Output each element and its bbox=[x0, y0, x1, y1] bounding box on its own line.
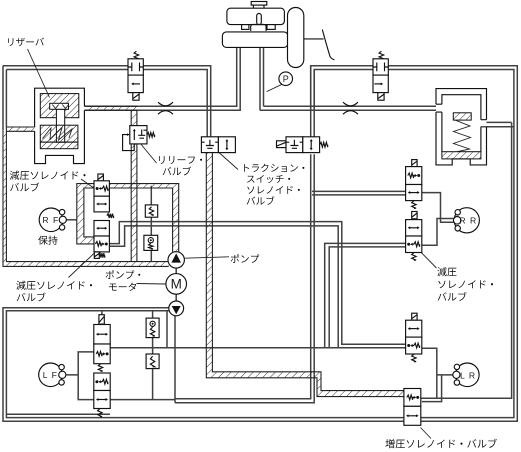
wire LF hold to LR reduce line bbox=[110, 347, 405, 349]
brake booster bbox=[288, 8, 304, 68]
wheel cylinder RR bbox=[454, 208, 479, 233]
wire reservoir gallery to master cylinder left pipe bbox=[85, 48, 241, 111]
master cylinder body bbox=[222, 32, 288, 48]
wire supply junction verticals bbox=[311, 66, 315, 137]
valve T1 traction switch solenoid bbox=[201, 137, 218, 153]
pump P2 bbox=[169, 301, 184, 316]
wire hold-valve bundle beta bbox=[109, 226, 338, 348]
leader relief valve label bbox=[141, 144, 157, 163]
label lbl-genatsu2a bbox=[16, 281, 92, 290]
label lbl-genatsu2b bbox=[17, 292, 46, 301]
leader RR reduce valve label bbox=[422, 253, 437, 268]
valve H LF reduce solenoid bbox=[94, 373, 110, 391]
wheel cylinder LF bbox=[39, 363, 63, 387]
wheel cylinder RF bbox=[39, 208, 63, 232]
label lbl-genatsu1b bbox=[10, 182, 39, 191]
wire RR bracket bbox=[422, 193, 455, 246]
svg-text:L F: L F bbox=[43, 370, 58, 380]
check valve K3 bbox=[146, 318, 159, 338]
regulator body bbox=[436, 89, 487, 165]
wire LR bracket bbox=[422, 348, 455, 401]
reservoir piston bbox=[56, 109, 64, 142]
label lbl-trac-b bbox=[247, 175, 290, 183]
label lbl-hoji bbox=[38, 236, 57, 245]
wire RR reduce valve return gamma1 bbox=[325, 243, 406, 347]
label lbl-genatsu1a bbox=[10, 171, 86, 180]
label lbl-pumpmotor-b bbox=[109, 283, 136, 291]
check valve K2 bbox=[144, 235, 158, 250]
label lbl-reservoir bbox=[8, 38, 44, 46]
master cylinder grommets bbox=[242, 25, 249, 30]
valve T2 master cut solenoid bbox=[277, 141, 287, 148]
regulator piston block bbox=[453, 113, 471, 120]
label lbl-pumpmotor-a bbox=[106, 270, 141, 279]
label lbl-genatsu3a bbox=[437, 267, 456, 276]
wire master-cut valve lower pair to return bbox=[175, 154, 314, 403]
leader reduce valve label 2 bbox=[69, 253, 96, 278]
leader pump label bbox=[185, 257, 229, 258]
wire feed to RR inlet valve bbox=[312, 191, 406, 195]
check valve K1 bbox=[145, 205, 157, 217]
leader boost valve label bbox=[421, 428, 432, 439]
node P leader bbox=[267, 84, 282, 91]
wire LF hold valve stub bbox=[101, 311, 103, 325]
valve U1 left circuit solenoid bbox=[134, 51, 139, 59]
wheel cylinder LR bbox=[456, 363, 480, 387]
wire top-left border to traction valve bbox=[3, 66, 211, 137]
pipe hatched left border and bottom return to pump bbox=[3, 129, 169, 266]
reservoir body bbox=[35, 88, 85, 163]
wire LF frame inner bottom bbox=[6, 413, 110, 415]
svg-text:P: P bbox=[283, 74, 289, 84]
check valve K4 bbox=[146, 354, 159, 369]
leader pump motor label bbox=[137, 283, 166, 286]
wire inner border ring bbox=[6, 70, 514, 418]
pipe hatched relief valve drop bbox=[131, 110, 137, 261]
orifice restrictor right bbox=[343, 102, 358, 114]
valve G LF hold solenoid bbox=[99, 315, 104, 324]
label lbl-trac-d bbox=[247, 196, 275, 205]
orifice restrictor left bbox=[158, 102, 173, 114]
pipe hatched RF C-loop bbox=[77, 184, 94, 244]
wire main line to hold line link bbox=[166, 311, 168, 348]
wire outer border ring bbox=[3, 66, 517, 422]
svg-text:R R: R R bbox=[459, 216, 477, 226]
reservoir bottom hatched strip bbox=[40, 142, 78, 149]
label lbl-genatsu3c bbox=[438, 292, 467, 301]
wire LR boost valve to regulator port bbox=[421, 122, 514, 398]
wire left border upper bbox=[3, 66, 6, 129]
master cylinder filler cap bbox=[251, 2, 267, 6]
motor M1 bbox=[166, 274, 187, 295]
master cylinder reservoir tank bbox=[227, 8, 285, 24]
wire LF reduce valve to pump suction bbox=[110, 316, 175, 403]
wire hold-valve bundle alpha bbox=[109, 222, 405, 345]
label lbl-trac-c bbox=[247, 186, 300, 194]
valve U2 right circuit solenoid bbox=[379, 51, 384, 59]
reservoir middle hatched block with spring bbox=[40, 125, 78, 142]
svg-text:R F: R F bbox=[42, 215, 59, 225]
label lbl-trac-a bbox=[244, 164, 304, 172]
wire RR reduce valve return gamma2 bbox=[329, 247, 405, 348]
label lbl-relief-a bbox=[159, 156, 202, 164]
wire master cylinder right pipe and supply run bbox=[260, 48, 442, 111]
valve B RF reduce solenoid bbox=[94, 221, 109, 237]
leader reduce valve label 1 bbox=[81, 179, 94, 188]
pipe hatched reservoir outlet bbox=[85, 106, 138, 110]
brake pedal bbox=[322, 30, 334, 60]
pedal pushrod bbox=[304, 38, 324, 40]
reservoir upper hatched block bbox=[40, 94, 79, 118]
pipe hatched reservoir inlet bbox=[6, 127, 34, 131]
valve A RF hold solenoid bbox=[98, 174, 104, 181]
wire RF tap bbox=[66, 219, 77, 221]
pipe hatched return gallery to pump bbox=[109, 184, 178, 252]
pipe hatched traction return with jog to LR boost valve bbox=[206, 153, 404, 397]
regulator bottom block bbox=[442, 152, 481, 159]
wire LF check valve line bbox=[152, 311, 154, 400]
valve F LR boost solenoid bbox=[404, 389, 421, 407]
wire pump motor connectors bbox=[175, 268, 177, 301]
wire LF tap and bracket bbox=[66, 352, 94, 400]
label lbl-genatsu3b bbox=[438, 280, 493, 288]
label lbl-zoatsu bbox=[385, 439, 496, 449]
pump P1 bbox=[168, 252, 184, 268]
valve C RR boost solenoid bbox=[412, 160, 417, 167]
valve D RR reduce solenoid bbox=[412, 212, 417, 219]
label lbl-pump bbox=[231, 254, 260, 263]
leader reservoir bbox=[28, 49, 50, 98]
leader traction valve label bbox=[220, 153, 239, 170]
svg-text:M: M bbox=[171, 277, 182, 292]
node P circle bbox=[279, 72, 293, 86]
regulator spring bbox=[454, 120, 471, 152]
svg-text:L R: L R bbox=[460, 371, 476, 381]
valve RV relief bbox=[123, 135, 135, 151]
valve E LR reduce solenoid bbox=[412, 313, 417, 320]
label lbl-relief-b bbox=[163, 167, 191, 176]
wire RF check valve line bbox=[150, 186, 152, 262]
